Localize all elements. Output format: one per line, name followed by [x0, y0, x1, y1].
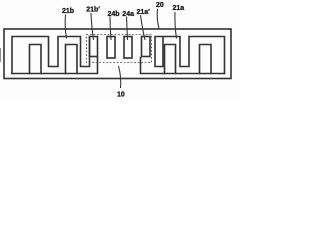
electrode 21b left arm inner edge and top rail with hanging teeth: [12, 37, 90, 74]
svg-text:21a′: 21a′: [137, 9, 151, 16]
open end 21b' (bar F1): [90, 37, 98, 57]
leader 21a: [175, 12, 177, 39]
leader lines: [65, 9, 176, 88]
svg-text:21b: 21b: [62, 8, 74, 15]
open end 21a' (bar F4): [142, 37, 151, 57]
svg-text:21a: 21a: [173, 5, 185, 12]
svg-text:24b: 24b: [108, 11, 120, 18]
svg-text:21b′: 21b′: [86, 7, 100, 14]
substrate outline 10 (outer rectangle): [4, 29, 231, 79]
svg-text:10: 10: [117, 92, 125, 99]
standing tooth 1 of 21b: [30, 45, 42, 74]
leader 24a: [127, 17, 128, 41]
feeding electrode 24a (bar F3): [124, 37, 132, 59]
svg-text:24a: 24a: [122, 11, 134, 18]
leader 20: [157, 9, 159, 29]
feeding electrode 24b (bar F2): [107, 37, 115, 59]
leader 10: [119, 66, 121, 88]
standing tooth 1 of 21a: [165, 45, 176, 74]
leader 24b: [110, 17, 111, 41]
svg-text:20: 20: [156, 2, 164, 9]
standing tooth 2 of 21b: [66, 45, 78, 74]
bottom rail right with stub: [141, 58, 225, 74]
leader 21b': [91, 13, 94, 40]
leader 21a': [141, 15, 146, 40]
bottom rail left with stub: [12, 58, 98, 74]
leader 21b: [65, 15, 66, 39]
electrode 21a right arm top rail with hanging teeth and inner edge: [155, 37, 225, 74]
standing tooth 2 of 21a: [200, 45, 212, 74]
dashed coupling region box: [87, 35, 152, 63]
scan artifact left edge: [0, 48, 2, 62]
